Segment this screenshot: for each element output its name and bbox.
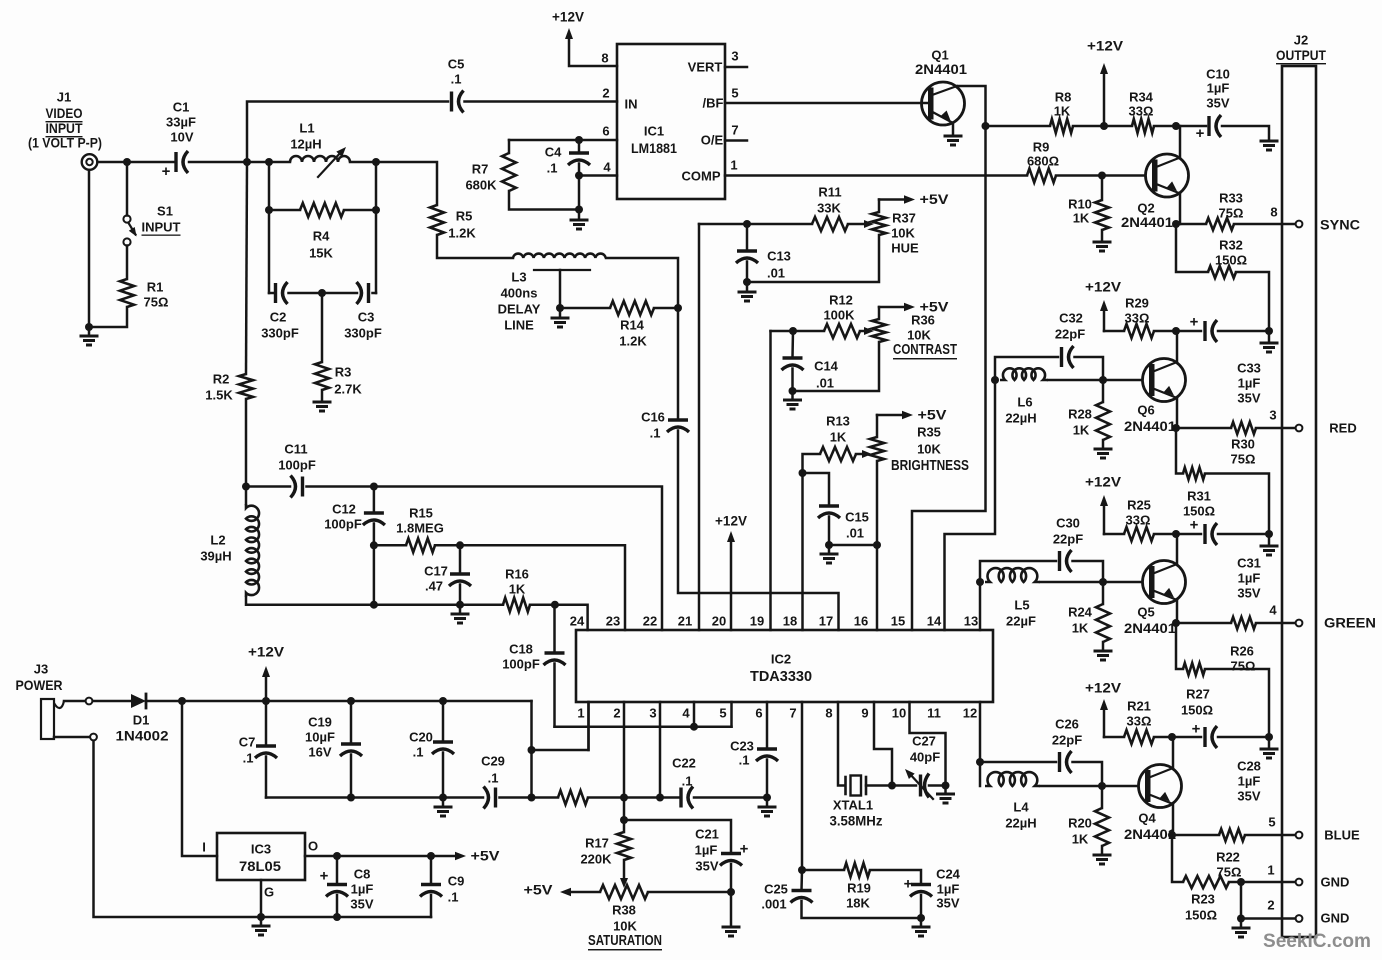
capacitor C31	[1190, 517, 1217, 546]
ground C31	[1260, 546, 1279, 555]
IC2 pin number 5	[719, 706, 726, 721]
wire Q4 emitter	[1172, 804, 1175, 835]
svg-text:22: 22	[643, 614, 657, 629]
svg-text:7: 7	[789, 706, 796, 721]
svg-text:L5: L5	[1014, 598, 1029, 613]
label C7 value	[243, 751, 254, 766]
svg-text:33Ω: 33Ω	[1125, 311, 1150, 326]
IC1 pin label VERT	[688, 60, 723, 75]
capacitor C25	[791, 891, 813, 903]
wire C17 upper	[459, 545, 462, 573]
wire J1 to C1	[98, 161, 177, 164]
junction C15 bottom	[825, 541, 833, 549]
svg-text:R27: R27	[1186, 687, 1210, 702]
wire R10 top	[1101, 176, 1104, 201]
svg-text:1K: 1K	[1072, 621, 1089, 636]
junction C4 top	[575, 136, 583, 144]
junction Q4 emitter	[1168, 831, 1176, 839]
svg-text:22pF: 22pF	[1055, 327, 1085, 342]
svg-text:.1: .1	[650, 426, 661, 441]
wire R3 to ground	[321, 390, 324, 400]
label R11	[818, 185, 841, 200]
label Q1 part	[915, 61, 967, 77]
svg-text:R34: R34	[1129, 90, 1154, 105]
wire C24 lower	[920, 895, 923, 918]
wire pin12 vertical	[979, 702, 982, 762]
resistor R14	[610, 301, 654, 315]
label C21 value	[695, 843, 718, 858]
label R37	[892, 211, 916, 226]
wire C32 jog	[995, 357, 1058, 380]
svg-text:R7: R7	[472, 162, 489, 177]
svg-text:+5V: +5V	[471, 849, 500, 864]
wire tap to R14	[560, 307, 610, 310]
svg-text:R30: R30	[1231, 437, 1255, 452]
wire return rail	[94, 741, 432, 917]
svg-text:O: O	[308, 839, 318, 854]
svg-text:G: G	[264, 885, 274, 900]
svg-text:8: 8	[825, 706, 832, 721]
inductor L4	[985, 772, 1040, 786]
IC3 pin label I	[202, 840, 206, 855]
label R2 value	[205, 388, 233, 403]
wire R29 lead	[1104, 330, 1124, 333]
IC2 pin number 7	[789, 706, 796, 721]
resistor R28	[1096, 402, 1110, 440]
label R29	[1125, 296, 1149, 311]
label C17 value	[425, 579, 443, 594]
label C32 value	[1055, 327, 1085, 342]
label C24 value	[937, 882, 960, 897]
IC1 pin label OE	[701, 133, 724, 148]
svg-text:C13: C13	[767, 249, 791, 264]
ground stub J1	[88, 327, 91, 334]
wire R4 right lead	[344, 209, 376, 212]
ground stub IC3	[260, 917, 263, 924]
svg-text:R5: R5	[456, 209, 473, 224]
label R16 value	[509, 582, 526, 597]
+12V supply Q4	[1085, 681, 1121, 738]
wire pin7 vertical	[801, 702, 804, 870]
svg-text:R20: R20	[1068, 816, 1092, 831]
resistor R21	[1124, 730, 1154, 744]
IC1 pin number 5	[731, 86, 738, 101]
label R13 value	[830, 430, 847, 445]
svg-text:R33: R33	[1219, 191, 1243, 206]
junction C2 C3 center	[318, 289, 326, 297]
svg-text:2N4401: 2N4401	[915, 61, 967, 77]
junction C9 top	[427, 852, 435, 860]
potentiometer R37	[872, 212, 886, 235]
svg-text:C31: C31	[1237, 556, 1261, 571]
svg-text:9: 9	[861, 706, 868, 721]
svg-text:POWER: POWER	[16, 677, 63, 693]
wire IC3 input drop	[182, 701, 217, 856]
label BLUE	[1324, 828, 1360, 843]
ground stub delay	[559, 308, 562, 316]
wire IC1 pin 6	[509, 139, 617, 142]
label C28	[1237, 759, 1261, 774]
svg-text:C15: C15	[845, 510, 869, 525]
+12V supply Q6	[1085, 280, 1121, 332]
+12V supply IC2 pin20	[715, 514, 747, 631]
junction Q1 collector R8	[982, 122, 990, 130]
svg-text:J2: J2	[1294, 33, 1308, 48]
IC1 pin label BF	[703, 96, 724, 111]
wire R1 to ground node	[89, 307, 127, 327]
junction C13 top	[743, 220, 751, 228]
connector J2 label OUTPUT	[1276, 47, 1326, 63]
wire R28 bottom	[1102, 440, 1105, 447]
junction C20 gnd	[439, 794, 447, 802]
IC2 pin number 20	[712, 614, 726, 629]
IC1 pin number 3	[731, 49, 738, 64]
label R9	[1033, 140, 1050, 155]
junction Q6 base	[1099, 376, 1107, 384]
wire R31 to C31 node	[1205, 474, 1269, 535]
IC2 pin number 24	[570, 614, 585, 629]
svg-text:35V: 35V	[350, 897, 373, 912]
svg-text:+12V: +12V	[552, 10, 584, 25]
wire R19 to C24	[870, 870, 921, 884]
wire L4 left	[979, 762, 982, 786]
wire D1 to rail	[146, 700, 182, 703]
svg-text:OUTPUT: OUTPUT	[1276, 47, 1326, 63]
wire IC3 ground pin	[260, 880, 263, 917]
capacitor C14	[782, 358, 804, 370]
svg-text:+5V: +5V	[918, 408, 947, 423]
IC2 pin number 15	[891, 614, 905, 629]
label R12	[829, 293, 853, 308]
label Q4	[1138, 811, 1156, 826]
wire R33 to J2 pin8	[1234, 223, 1296, 226]
label R26 value	[1231, 659, 1256, 674]
wire R14 right	[654, 307, 678, 310]
svg-text:5: 5	[1268, 815, 1275, 830]
svg-text:5: 5	[731, 86, 738, 101]
resistor R32	[1208, 266, 1236, 278]
+12V supply IC1 pin8	[552, 10, 584, 40]
label R1	[147, 280, 164, 295]
wire L2 to bottom rail	[246, 597, 374, 605]
svg-text:R9: R9	[1033, 140, 1050, 155]
wire +12V rail	[182, 700, 532, 703]
wire R7 bottom	[509, 191, 579, 210]
svg-text:22pF: 22pF	[1053, 532, 1083, 547]
ground stub C17	[459, 605, 462, 612]
IC2 pin number 4	[682, 706, 690, 721]
svg-text:2N4401: 2N4401	[1124, 620, 1176, 636]
label L3 DELAY	[498, 302, 541, 317]
svg-text:C32: C32	[1059, 311, 1083, 326]
wire C20 upper	[442, 701, 445, 741]
label C23 value	[739, 753, 750, 768]
svg-text:R4: R4	[313, 229, 330, 244]
resistor R11	[812, 217, 848, 231]
svg-text:R17: R17	[585, 836, 609, 851]
svg-text:+12V: +12V	[715, 514, 747, 529]
label R19	[847, 881, 871, 896]
wire node A to C5 line	[247, 102, 448, 163]
label C3	[358, 310, 375, 325]
node J2 pin 1 GND	[1296, 879, 1303, 886]
svg-text:.47: .47	[425, 579, 443, 594]
wire C28 lead	[1172, 736, 1201, 739]
wire C10 lead	[1176, 125, 1206, 128]
junction IC3 input tap	[178, 697, 186, 705]
IC1 pin number 7	[731, 123, 738, 138]
label R34 value	[1129, 104, 1154, 119]
capacitor C33	[1190, 314, 1217, 343]
capacitor C2	[276, 282, 288, 304]
svg-text:Q6: Q6	[1137, 403, 1154, 418]
junction pin4 jog	[690, 723, 698, 731]
svg-text:L6: L6	[1017, 395, 1032, 410]
junction R14 C16	[674, 304, 682, 312]
wire IC1 pin 1 COMP	[725, 174, 1027, 177]
wire C16 to pin 17	[678, 431, 839, 631]
junction C17 top	[456, 541, 464, 549]
label SYNC	[1320, 218, 1360, 233]
svg-text:13: 13	[964, 614, 978, 629]
label R20 value	[1072, 832, 1089, 847]
wire pin1 jog	[555, 725, 732, 728]
junction C12 top	[370, 483, 378, 491]
svg-text:18: 18	[783, 614, 797, 629]
+5V supply IC3	[455, 849, 500, 864]
svg-text:14: 14	[927, 614, 942, 629]
wire C15 lower	[828, 517, 831, 546]
J2 pin number 4	[1269, 603, 1277, 618]
svg-text:75Ω: 75Ω	[1219, 206, 1244, 221]
svg-text:.1: .1	[682, 774, 693, 789]
wire C4 chain	[578, 140, 581, 151]
svg-text:R16: R16	[505, 567, 529, 582]
svg-text:16V: 16V	[308, 745, 331, 760]
junction R4 right	[372, 206, 380, 214]
node J2 pin 4	[1296, 620, 1303, 627]
label R24 value	[1072, 621, 1089, 636]
connector J1 label volts	[28, 136, 102, 151]
junction C13 bottom	[743, 278, 751, 286]
label C27 value	[910, 750, 940, 765]
label C15 value	[846, 526, 864, 541]
svg-text:R1: R1	[147, 280, 164, 295]
svg-text:C1: C1	[173, 100, 190, 115]
node J2 pin 5	[1296, 832, 1303, 839]
wire R21 to Q4 collector	[1154, 736, 1172, 739]
label L1 value	[290, 137, 321, 152]
svg-text:6: 6	[602, 124, 609, 139]
junction S1 tap	[123, 158, 131, 166]
svg-text:R37: R37	[892, 211, 916, 226]
label IC3 part	[239, 858, 281, 874]
svg-text:+: +	[1190, 517, 1199, 534]
ground C28	[1260, 749, 1279, 758]
label L4 value	[1005, 816, 1036, 831]
junction C14 top	[789, 327, 797, 335]
svg-text:10µF: 10µF	[305, 730, 335, 745]
capacitor C30	[1060, 550, 1072, 572]
connector J2 box	[1282, 66, 1316, 937]
label IC3	[251, 842, 271, 857]
svg-text:16: 16	[854, 614, 868, 629]
label C19 value	[305, 730, 335, 745]
capacitor C24	[904, 876, 932, 897]
svg-text:S1: S1	[157, 204, 173, 219]
label R1 value	[144, 295, 169, 310]
label GND pin2	[1321, 911, 1350, 926]
J2 pin number 1	[1267, 863, 1274, 878]
svg-text:R11: R11	[818, 185, 841, 200]
svg-text:330pF: 330pF	[344, 326, 382, 341]
svg-text:15K: 15K	[309, 246, 333, 261]
wire Q5 collector	[1176, 534, 1179, 564]
svg-text:INPUT: INPUT	[46, 120, 83, 136]
wire C27 lead	[892, 784, 916, 787]
label R5 value	[448, 226, 476, 241]
label C10 voltage	[1206, 96, 1229, 111]
label C21	[695, 827, 719, 842]
label IC1	[644, 124, 664, 139]
junction C17 bottom	[456, 601, 464, 609]
svg-text:C9: C9	[448, 874, 465, 889]
label RED	[1329, 421, 1356, 436]
wire R37 bottom to C13 bottom	[747, 235, 879, 282]
label C31	[1237, 556, 1261, 571]
svg-text:C14: C14	[814, 359, 839, 374]
wire IC1 pin 5 BF to Q1 base	[725, 102, 928, 105]
wire R8 lead	[986, 125, 1051, 128]
capacitor C28	[1192, 721, 1217, 749]
svg-text:3.58MHz: 3.58MHz	[830, 814, 883, 829]
capacitor C18	[544, 653, 566, 665]
wire C31 to ground node	[1218, 533, 1269, 536]
wire R21 lead	[1104, 736, 1124, 739]
junction L5 left	[976, 578, 984, 586]
label C11	[284, 442, 307, 457]
ground stub output	[1240, 919, 1243, 927]
svg-text:+: +	[162, 163, 171, 180]
svg-text:R25: R25	[1127, 498, 1151, 513]
wire Q2 collector	[1179, 126, 1182, 158]
label C25 value	[761, 897, 786, 912]
junction +12V rail Q2	[1100, 122, 1108, 130]
wire C33 lead	[1176, 330, 1201, 333]
IC2 pin number 19	[750, 614, 764, 629]
IC2 pin number 3	[649, 706, 656, 721]
svg-text:C23: C23	[730, 739, 754, 754]
capacitor C8	[320, 868, 348, 897]
+5V supply R36	[879, 300, 949, 320]
resistor R24	[1096, 604, 1110, 642]
label C10	[1206, 67, 1230, 82]
label Q6	[1137, 403, 1154, 418]
IC1 pin number 8	[601, 51, 608, 66]
resistor R12	[824, 324, 860, 338]
capacitor C13	[736, 251, 758, 263]
resistor R9	[1027, 169, 1056, 183]
wire C28 to ground node	[1218, 736, 1269, 739]
label C17	[424, 564, 448, 579]
resistor R33	[1206, 218, 1234, 230]
label IC2	[771, 652, 791, 667]
svg-text:35V: 35V	[1237, 391, 1260, 406]
label C1	[173, 100, 190, 115]
svg-text:8: 8	[601, 51, 608, 66]
wire Q1 collector	[912, 86, 986, 630]
wire R7 top	[508, 140, 511, 153]
wire R9 to Q2 base	[1056, 174, 1145, 177]
junction L1 left	[265, 158, 273, 166]
svg-text:1K: 1K	[509, 582, 526, 597]
wire C3 to corner	[373, 292, 377, 295]
svg-text:L1: L1	[299, 121, 314, 136]
IC2 pin number 1	[577, 706, 584, 721]
resistor R25	[1124, 527, 1154, 541]
svg-text:R24: R24	[1068, 605, 1093, 620]
label C28 voltage	[1237, 789, 1260, 804]
svg-text:C5: C5	[448, 57, 465, 72]
svg-text:35V: 35V	[695, 859, 718, 874]
label R32	[1219, 238, 1243, 253]
svg-text:R2: R2	[213, 372, 230, 387]
label C23	[730, 739, 754, 754]
label C31 voltage	[1237, 586, 1260, 601]
wire R13 wiper arrow	[856, 450, 872, 458]
svg-text:150Ω: 150Ω	[1185, 908, 1217, 923]
svg-text:20: 20	[712, 614, 726, 629]
svg-text:8: 8	[1270, 205, 1277, 220]
wire C13 upper	[746, 224, 749, 250]
label D1 part	[116, 729, 169, 744]
junction pin3 bus	[656, 794, 664, 802]
wire R10 bottom	[1101, 230, 1104, 240]
wire C9 lower	[430, 895, 433, 917]
label R11 value	[817, 201, 841, 216]
wire L3 right to junction	[606, 258, 678, 308]
label R8	[1055, 90, 1072, 105]
+12V supply Q2 rail	[1087, 39, 1123, 127]
svg-text:.01: .01	[816, 376, 834, 391]
wire center tap to R3	[321, 293, 324, 362]
svg-text:150Ω: 150Ω	[1181, 703, 1213, 718]
IC3 pin label O	[308, 839, 318, 854]
inductor L3 delay line	[513, 254, 606, 258]
svg-text:Q5: Q5	[1137, 605, 1154, 620]
svg-text:1.2K: 1.2K	[448, 226, 476, 241]
capacitor C11	[291, 476, 303, 498]
label R9 value	[1027, 154, 1059, 169]
svg-text:+: +	[1190, 314, 1199, 331]
label C21 voltage	[695, 859, 718, 874]
svg-text:680K: 680K	[465, 178, 497, 193]
label R4 value	[309, 246, 333, 261]
svg-text:33µF: 33µF	[166, 115, 196, 130]
svg-text:J3: J3	[34, 662, 48, 677]
label C19 voltage	[308, 745, 331, 760]
ground IC3	[252, 926, 271, 935]
svg-text:.1: .1	[488, 771, 499, 786]
wire IC1 pin 3 stub VERT	[725, 66, 747, 69]
J2 pin number 8	[1270, 205, 1277, 220]
label C15	[845, 510, 869, 525]
label L5 value	[1006, 614, 1036, 629]
label R15 value	[396, 521, 444, 536]
label L3	[511, 270, 526, 285]
svg-text:35V: 35V	[1237, 789, 1260, 804]
junction pin2 bus	[620, 794, 628, 802]
